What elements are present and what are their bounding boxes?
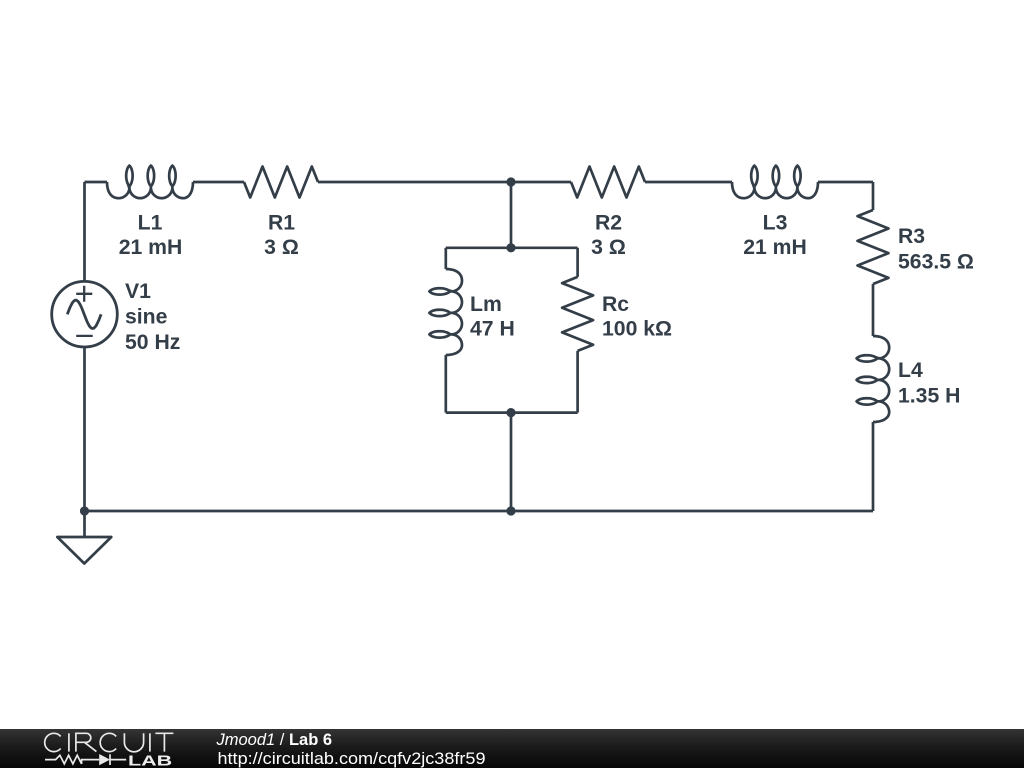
wire box top side [446, 246, 578, 249]
svg-text:Jmood1 / Lab 6: Jmood1 / Lab 6 [216, 731, 333, 749]
logo letter T [155, 733, 173, 751]
logo letter U [124, 733, 143, 752]
wire box corner to Lm [444, 248, 447, 269]
svg-text:47 H: 47 H [470, 318, 515, 341]
V1 plus sign [76, 286, 92, 302]
svg-text:R2: R2 [595, 212, 622, 235]
resistor R2 [571, 167, 645, 198]
voltage source V1 circle [52, 281, 118, 347]
logo letter C [100, 733, 116, 751]
wire top-left corner down to V1 [83, 182, 86, 281]
wire node A down to box top [510, 182, 513, 248]
svg-text:L3: L3 [763, 212, 788, 235]
wire box bottom to bottom rail [510, 413, 513, 511]
logo letter I [149, 733, 151, 751]
svg-text:L1: L1 [138, 212, 163, 235]
wire bottom rail left [85, 510, 512, 513]
inductor L4 [857, 336, 890, 422]
svg-text:Lm: Lm [470, 293, 502, 316]
junction ground node [80, 506, 89, 515]
resistor Rc [562, 277, 593, 351]
svg-text:sine: sine [125, 306, 168, 329]
wire box bottom side [446, 411, 578, 414]
logo letter I [68, 733, 70, 751]
V1 minus sign [76, 335, 93, 337]
junction box top [506, 243, 515, 252]
svg-text:3 Ω: 3 Ω [591, 236, 626, 259]
resistor R1 [244, 167, 318, 198]
wire L4 to bottom-right corner [872, 422, 875, 511]
wire V1 top to L1 [85, 181, 108, 184]
junction bottom rail [506, 506, 515, 515]
svg-text:100 kΩ: 100 kΩ [602, 318, 672, 341]
wire bottom rail right [511, 510, 873, 513]
logo letter R [76, 733, 97, 751]
svg-text:21 mH: 21 mH [743, 236, 807, 259]
wire R2 to L3 [645, 181, 732, 184]
resistor R3 [858, 210, 889, 284]
logo letter C [45, 733, 61, 751]
svg-text:http://circuitlab.com/cqfv2jc3: http://circuitlab.com/cqfv2jc38fr59 [218, 750, 486, 768]
logo diode cathode and lead [110, 754, 126, 765]
svg-text:3 Ω: 3 Ω [264, 236, 299, 259]
svg-text:R3: R3 [898, 225, 925, 248]
svg-text:L4: L4 [898, 359, 923, 382]
logo diode triangle [99, 754, 110, 765]
svg-text:50 Hz: 50 Hz [125, 331, 180, 354]
wire corner to R3 [872, 182, 875, 210]
logo resistor [45, 755, 99, 764]
wire node A to R2 [511, 181, 571, 184]
svg-text:563.5 Ω: 563.5 Ω [898, 251, 974, 274]
svg-text:21 mH: 21 mH [119, 236, 183, 259]
junction box bottom [506, 408, 515, 417]
ground triangle [57, 537, 111, 564]
inductor L3 [732, 166, 818, 199]
node A junction (top rail) [506, 177, 515, 186]
inductor Lm [429, 269, 462, 355]
wire Rc to box corner [576, 351, 579, 413]
wire L3 to top-right corner [818, 181, 873, 184]
svg-text:V1: V1 [125, 280, 151, 303]
ground stem [83, 511, 86, 537]
wire R3 to L4 [872, 284, 875, 336]
inductor L1 [107, 166, 193, 199]
wire Lm to box corner [444, 355, 447, 413]
V1 sine glyph [67, 300, 101, 328]
svg-text:Rc: Rc [602, 293, 629, 316]
footer bar [0, 729, 1024, 768]
wire box corner to Rc [576, 248, 579, 277]
svg-text:1.35 H: 1.35 H [898, 385, 960, 408]
wire L1 to R1 [193, 181, 244, 184]
wire R1 to node A [318, 181, 511, 184]
wire V1 bottom to ground node [83, 347, 86, 511]
svg-text:LAB: LAB [128, 753, 172, 768]
svg-text:R1: R1 [268, 212, 295, 235]
